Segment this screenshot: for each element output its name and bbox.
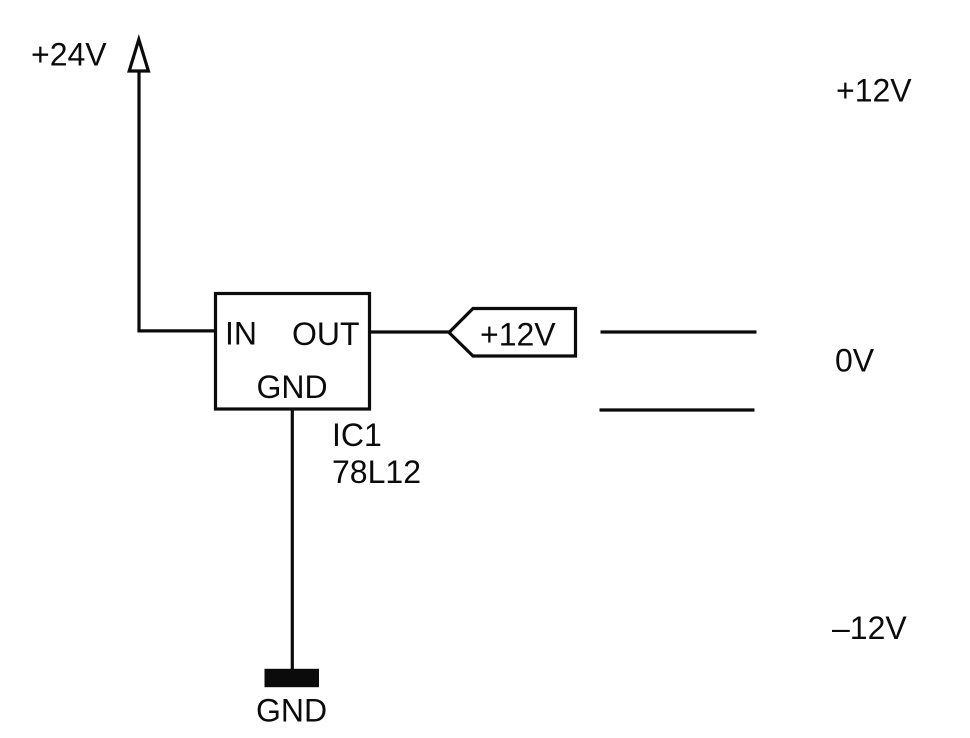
- wire OUT pin to +12V tag: [371, 330, 450, 333]
- pin label OUT: [292, 316, 360, 352]
- svg-text:GND: GND: [256, 693, 327, 729]
- svg-text:+12V: +12V: [480, 317, 556, 353]
- power arrow +24V: [129, 40, 148, 72]
- ground bar: [265, 669, 320, 687]
- svg-text:GND: GND: [257, 369, 328, 405]
- label IC1: [332, 417, 382, 453]
- label +12V rail: [836, 73, 912, 109]
- svg-text:IN: IN: [225, 316, 257, 352]
- svg-text:+24V: +24V: [31, 37, 107, 73]
- pin label IN: [225, 316, 257, 352]
- svg-text:+12V: +12V: [836, 73, 912, 109]
- label GND ground: [256, 693, 327, 729]
- wire GND pin to ground: [291, 409, 294, 670]
- rail line 0V: [600, 408, 755, 411]
- label 78L12: [332, 454, 421, 490]
- wire from +24V arrow to IN pin: [139, 73, 214, 331]
- svg-text:IC1: IC1: [332, 417, 382, 453]
- rail line +12V: [601, 330, 757, 333]
- tag text +12V: [480, 317, 556, 353]
- net tag +12V: [449, 309, 576, 357]
- svg-text:–12V: –12V: [832, 610, 907, 646]
- svg-text:0V: 0V: [835, 343, 875, 379]
- node +24V label: [31, 37, 107, 73]
- regulator IC1 box: [216, 294, 370, 410]
- label 0V rail: [835, 343, 875, 379]
- pin label GND: [257, 369, 328, 405]
- svg-text:OUT: OUT: [292, 316, 360, 352]
- label -12V rail: [832, 610, 907, 646]
- svg-text:78L12: 78L12: [332, 454, 421, 490]
